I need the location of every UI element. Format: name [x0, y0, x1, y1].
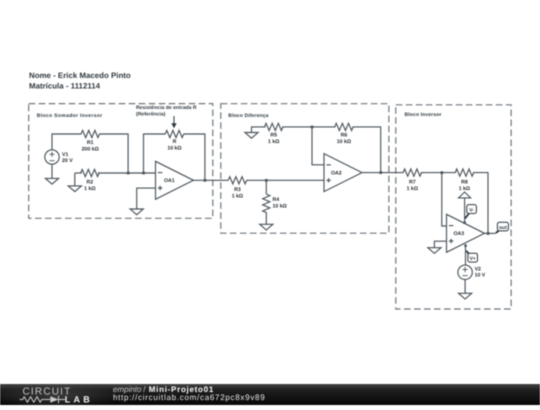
svg-text:R: R [173, 139, 177, 145]
svg-text:Bloco Diferença: Bloco Diferença [228, 113, 268, 119]
svg-text:R1: R1 [87, 140, 94, 146]
svg-text:out: out [499, 225, 507, 231]
svg-text:OA3: OA3 [454, 231, 465, 237]
svg-text:R8: R8 [461, 179, 468, 185]
svg-text:V-: V- [469, 208, 474, 214]
svg-text:R3: R3 [234, 187, 241, 193]
svg-text:http://circuitlab.com/ca672pc8: http://circuitlab.com/ca672pc8x9v89 [113, 393, 265, 402]
svg-text:1 kΩ: 1 kΩ [407, 186, 418, 192]
svg-text:Bloco Inversor: Bloco Inversor [405, 112, 442, 118]
svg-text:Nome - Erick Macedo Pinto: Nome - Erick Macedo Pinto [29, 71, 131, 80]
svg-text:V+: V+ [470, 256, 476, 262]
svg-text:10 kΩ: 10 kΩ [337, 139, 351, 145]
svg-text:1 kΩ: 1 kΩ [84, 186, 95, 192]
svg-text:200 kΩ: 200 kΩ [82, 146, 99, 152]
svg-text:1 kΩ: 1 kΩ [459, 186, 470, 192]
svg-text:Bloco Somador Inversor: Bloco Somador Inversor [37, 113, 103, 119]
svg-text:OA1: OA1 [164, 178, 175, 184]
svg-text:LAB: LAB [65, 395, 93, 405]
svg-text:R7: R7 [409, 179, 416, 185]
svg-text:R6: R6 [341, 132, 348, 138]
svg-text:1 kΩ: 1 kΩ [268, 139, 279, 145]
svg-text:V1: V1 [62, 152, 68, 158]
svg-text:10 kΩ: 10 kΩ [273, 204, 287, 210]
svg-text:OA2: OA2 [331, 171, 342, 177]
svg-text:20 V: 20 V [62, 158, 73, 164]
svg-text:(Referência): (Referência) [136, 111, 166, 117]
svg-text:1 kΩ: 1 kΩ [232, 193, 243, 199]
svg-text:R2: R2 [87, 179, 94, 185]
svg-text:R5: R5 [270, 132, 277, 138]
svg-text:10 kΩ: 10 kΩ [167, 146, 181, 152]
svg-text:Resistência de entrada R: Resistência de entrada R [136, 105, 197, 111]
svg-text:R4: R4 [273, 197, 280, 203]
svg-text:10 V: 10 V [475, 273, 486, 279]
svg-text:Matrícula - 1112114: Matrícula - 1112114 [29, 81, 101, 90]
